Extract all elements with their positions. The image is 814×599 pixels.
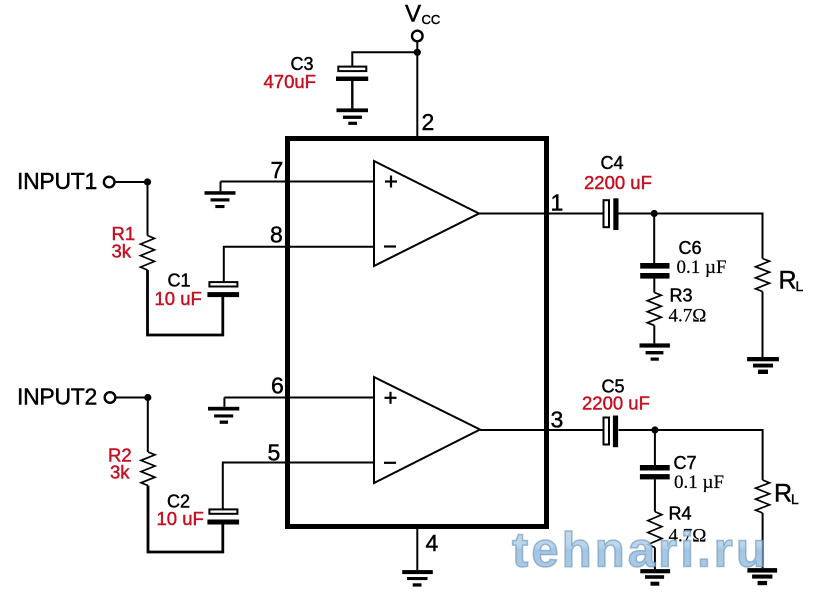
svg-text:CC: CC [422,12,441,27]
ground R4 [640,569,670,586]
wire R1 bottom loop to C1 [148,270,223,335]
svg-text:3k: 3k [110,462,130,483]
capacitor C5 (polarized) [604,416,619,448]
wire junction to R1 [147,182,149,236]
capacitor C4 (polarized) [604,198,619,230]
wire R3 to ground [653,325,655,343]
svg-text:8: 8 [270,222,283,248]
wire INPUT1 to junction [115,181,148,183]
junction node INPUT1 [144,178,151,185]
junction Vcc node [414,49,421,56]
wire junction to R2 [147,398,149,453]
svg-text:10 uF: 10 uF [157,508,204,529]
resistor R1 [141,236,155,271]
resistor RL bottom [756,480,770,513]
svg-text:2200 uF: 2200 uF [582,393,650,414]
wire junction to C3 [352,52,417,66]
power terminal Vcc [412,31,423,42]
svg-text:INPUT1: INPUT1 [17,168,97,194]
wire pin 3 to C5 [480,429,603,431]
wire C4 to junction [619,213,655,215]
wire R4 to ground [654,548,656,570]
junction node out1 [651,210,658,217]
resistor R2 [141,452,155,486]
ground RL bottom [747,568,777,585]
svg-text:7: 7 [271,157,284,183]
wire junction to C6 [653,214,655,264]
ground pin 7 [205,191,236,208]
wire C2 to pin 5 [223,463,374,510]
capacitor C3 (polarized) [336,67,368,109]
wire RL top to ground [762,292,764,358]
ground pin 6 [208,407,239,424]
wire R2 bottom loop to C2 [148,486,223,552]
wire pin 4 [416,527,418,570]
wire junction to C7 [654,430,656,465]
wire junction to RL top [654,214,762,259]
resistor RL top [756,259,770,292]
svg-text:C7: C7 [674,453,697,473]
svg-text:1: 1 [551,190,564,216]
watermark tehnari.ru [0,0,1,1]
svg-text:INPUT2: INPUT2 [17,384,97,410]
capacitor C1 (polarized) [207,282,239,297]
svg-text:C4: C4 [601,153,624,173]
input terminal INPUT2 [105,392,116,403]
wire C6 to R3 [653,279,655,293]
svg-text:V: V [405,1,421,28]
svg-text:C6: C6 [679,238,702,258]
svg-text:4.7Ω: 4.7Ω [669,306,707,327]
svg-text:2: 2 [422,109,435,135]
svg-text:R: R [774,480,792,508]
svg-text:6: 6 [271,372,284,398]
wire RL bottom to ground [762,513,764,568]
svg-text:0.1 µF: 0.1 µF [677,257,727,278]
wire pin 6 ground stub [223,398,225,407]
wire junction to RL bottom [655,430,763,480]
wire pin 7 [221,181,375,183]
svg-text:4: 4 [426,530,439,556]
svg-text:0.1 µF: 0.1 µF [674,472,724,493]
op-amp U1B [374,377,480,483]
capacitor C2 (polarized) [207,509,239,524]
svg-text:3: 3 [551,406,564,432]
svg-text:L: L [796,278,804,294]
svg-text:470uF: 470uF [264,71,316,92]
junction node INPUT2 [144,394,151,401]
ground R3 [640,343,670,360]
input terminal INPUT1 [104,177,115,188]
capacitor C6 [640,263,669,279]
svg-text:tehnari.ru: tehnari.ru [512,524,769,578]
svg-text:R: R [779,267,797,295]
wire INPUT2 to junction [116,397,148,399]
op-amp U1A [374,161,479,266]
wire pin 6 [224,397,374,399]
wire C7 to R4 [654,479,656,511]
wire pin 2 [416,52,418,137]
svg-text:R4: R4 [669,504,692,524]
resistor R3 [647,293,661,326]
wire pin 1 to C4 [479,213,603,215]
junction node out2 [651,426,658,433]
IC body U1 [288,139,547,527]
ground RL top [747,357,779,374]
wire C5 to junction [619,429,655,431]
wire Vcc terminal to junction [416,42,418,53]
svg-text:10 uF: 10 uF [155,288,202,309]
capacitor C7 [640,465,670,479]
ground C3 [337,108,369,124]
svg-text:L: L [791,491,799,507]
svg-text:3k: 3k [112,241,132,262]
wire pin 7 ground stub [220,182,222,192]
svg-text:R3: R3 [670,286,693,306]
wire C1 to pin 8 [224,247,374,282]
svg-text:5: 5 [268,440,281,466]
resistor R4 [648,512,662,548]
svg-text:2200 uF: 2200 uF [584,172,652,193]
ground pin 4 [402,570,433,587]
